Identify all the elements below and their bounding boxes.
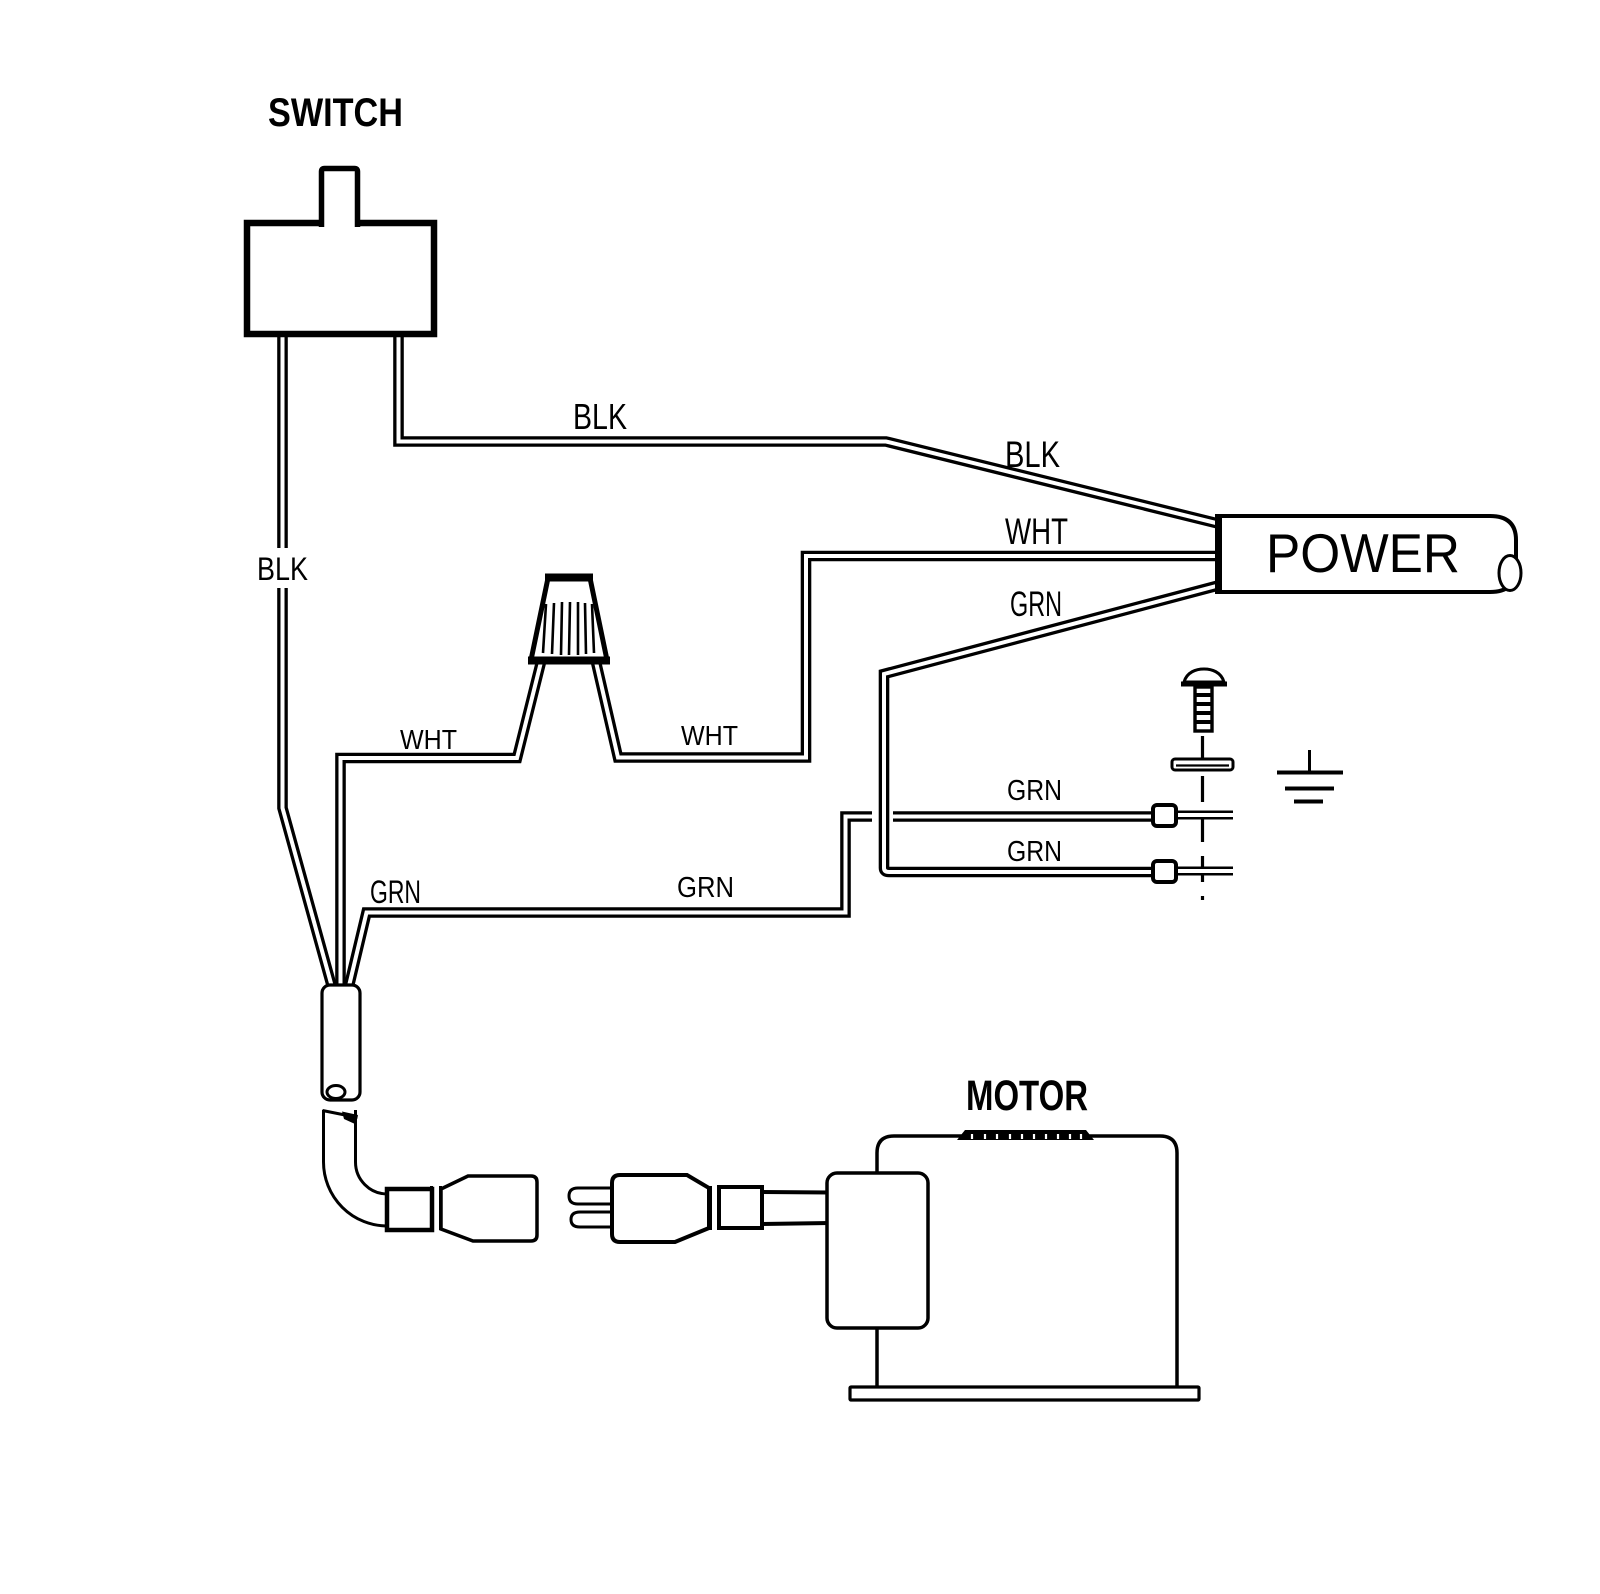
svg-text:WHT: WHT — [1005, 511, 1068, 552]
terminal pin lower — [1176, 867, 1234, 876]
switch body — [247, 223, 434, 334]
wire GRN from POWER down to lower ground terminal — [884, 585, 1220, 872]
svg-text:WHT: WHT — [400, 724, 457, 755]
wire BLK from switch right pin to POWER — [399, 336, 1221, 524]
plug neck ring — [711, 1186, 719, 1230]
wire WHT from wire nut right leg to POWER — [596, 556, 1220, 758]
svg-text:BLK: BLK — [573, 396, 627, 437]
label BLK left (interrupts wire) — [251, 548, 313, 588]
ring terminal ferrule upper — [1153, 805, 1176, 826]
svg-text:BLK: BLK — [1005, 434, 1060, 475]
terminal pin upper — [1176, 811, 1234, 820]
female connector ring — [432, 1186, 441, 1230]
POWER cable capsule — [1217, 514, 1521, 594]
ground symbol — [1277, 750, 1343, 802]
svg-text:WHT: WHT — [681, 720, 738, 751]
plug body — [612, 1175, 709, 1242]
crimp sleeve where BLK WHT GRN join — [322, 985, 360, 1100]
motor junction box — [827, 1173, 928, 1328]
plug prong lower — [571, 1212, 616, 1227]
motor body — [877, 1136, 1177, 1386]
motor base — [850, 1387, 1199, 1400]
svg-text:MOTOR: MOTOR — [966, 1072, 1088, 1120]
wire GRN from crimp sleeve to ground terminal stub — [349, 817, 875, 987]
svg-text:GRN: GRN — [1007, 775, 1062, 807]
female connector body — [441, 1176, 537, 1241]
svg-text:GRN: GRN — [1007, 836, 1062, 868]
svg-text:POWER: POWER — [1266, 522, 1460, 584]
elbow boot tube — [323, 1108, 393, 1210]
switch actuator — [322, 169, 358, 228]
wire WHT from crimp sleeve up and to wire nut left leg — [341, 662, 542, 988]
cord from plug to motor junction box — [762, 1192, 830, 1224]
svg-text:GRN: GRN — [677, 872, 734, 904]
plug prong upper — [569, 1188, 616, 1204]
female connector ferrule — [387, 1189, 432, 1230]
svg-text:BLK: BLK — [257, 551, 308, 587]
svg-text:SWITCH: SWITCH — [268, 91, 403, 135]
svg-text:GRN: GRN — [370, 874, 421, 910]
motor top vent strip — [957, 1130, 1094, 1140]
plug boot — [719, 1187, 762, 1228]
machine screw — [1181, 669, 1227, 731]
dashed screw axis line — [1201, 736, 1204, 900]
wire GRN upper terminal wire — [891, 811, 1159, 822]
svg-text:GRN: GRN — [1010, 585, 1062, 624]
flat washer — [1172, 759, 1233, 770]
wire nut body — [528, 578, 610, 661]
ring terminal ferrule lower — [1153, 861, 1176, 882]
wire BLK from switch left pin down to crimp sleeve — [283, 336, 333, 987]
